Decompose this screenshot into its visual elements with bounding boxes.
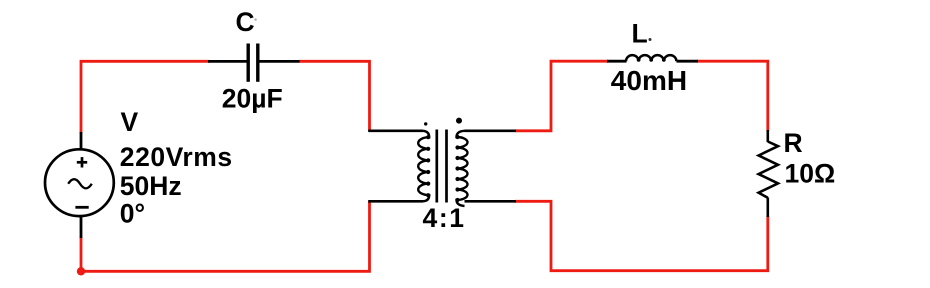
primary winding joints: [426, 135, 430, 197]
wire left vertical top (source to top rail): [81, 61, 209, 133]
wire transformer secondary top to inductor rail: [515, 61, 608, 131]
svg-text:40mH: 40mH: [611, 65, 687, 96]
secondary winding: [457, 131, 468, 206]
wire left loop bottom: [81, 201, 370, 271]
svg-text:V: V: [121, 107, 139, 137]
primary winding: [418, 131, 429, 202]
svg-text:50Hz: 50Hz: [120, 171, 182, 201]
pin wire secondary bottom: [465, 200, 517, 203]
wire inductor to resistor top: [697, 61, 768, 131]
inductor L: [607, 55, 698, 62]
core line 2: [445, 130, 448, 203]
winding joints: [637, 58, 666, 62]
junction dot: [77, 267, 85, 275]
core line 1: [435, 130, 438, 203]
svg-text:220Vrms: 220Vrms: [120, 142, 233, 172]
wire source bottom to junction: [80, 237, 83, 271]
svg-text:10Ω: 10Ω: [785, 159, 836, 189]
svg-text:20µF: 20µF: [222, 83, 283, 113]
capacitor C: [208, 44, 300, 82]
svg-text:4:1: 4:1: [423, 203, 466, 233]
wire resistor bottom / right loop bottom: [515, 201, 768, 270]
artifact dot after C: [254, 18, 256, 20]
pin wire primary top: [368, 130, 423, 133]
pin wire secondary top: [465, 130, 517, 133]
svg-text:0°: 0°: [120, 199, 145, 229]
secondary winding joints: [455, 135, 459, 202]
artifact dot after L: [649, 38, 652, 41]
svg-text:L: L: [632, 19, 648, 49]
wire top rail right of capacitor: [299, 61, 370, 131]
transformer T1: [368, 118, 516, 206]
dot primary: [424, 122, 427, 125]
svg-text:R: R: [784, 128, 803, 158]
pin wire primary bottom: [368, 200, 423, 203]
dot secondary: [456, 118, 462, 124]
svg-text:C: C: [236, 7, 255, 37]
resistor R: [759, 130, 778, 217]
voltage source V: [45, 132, 114, 238]
